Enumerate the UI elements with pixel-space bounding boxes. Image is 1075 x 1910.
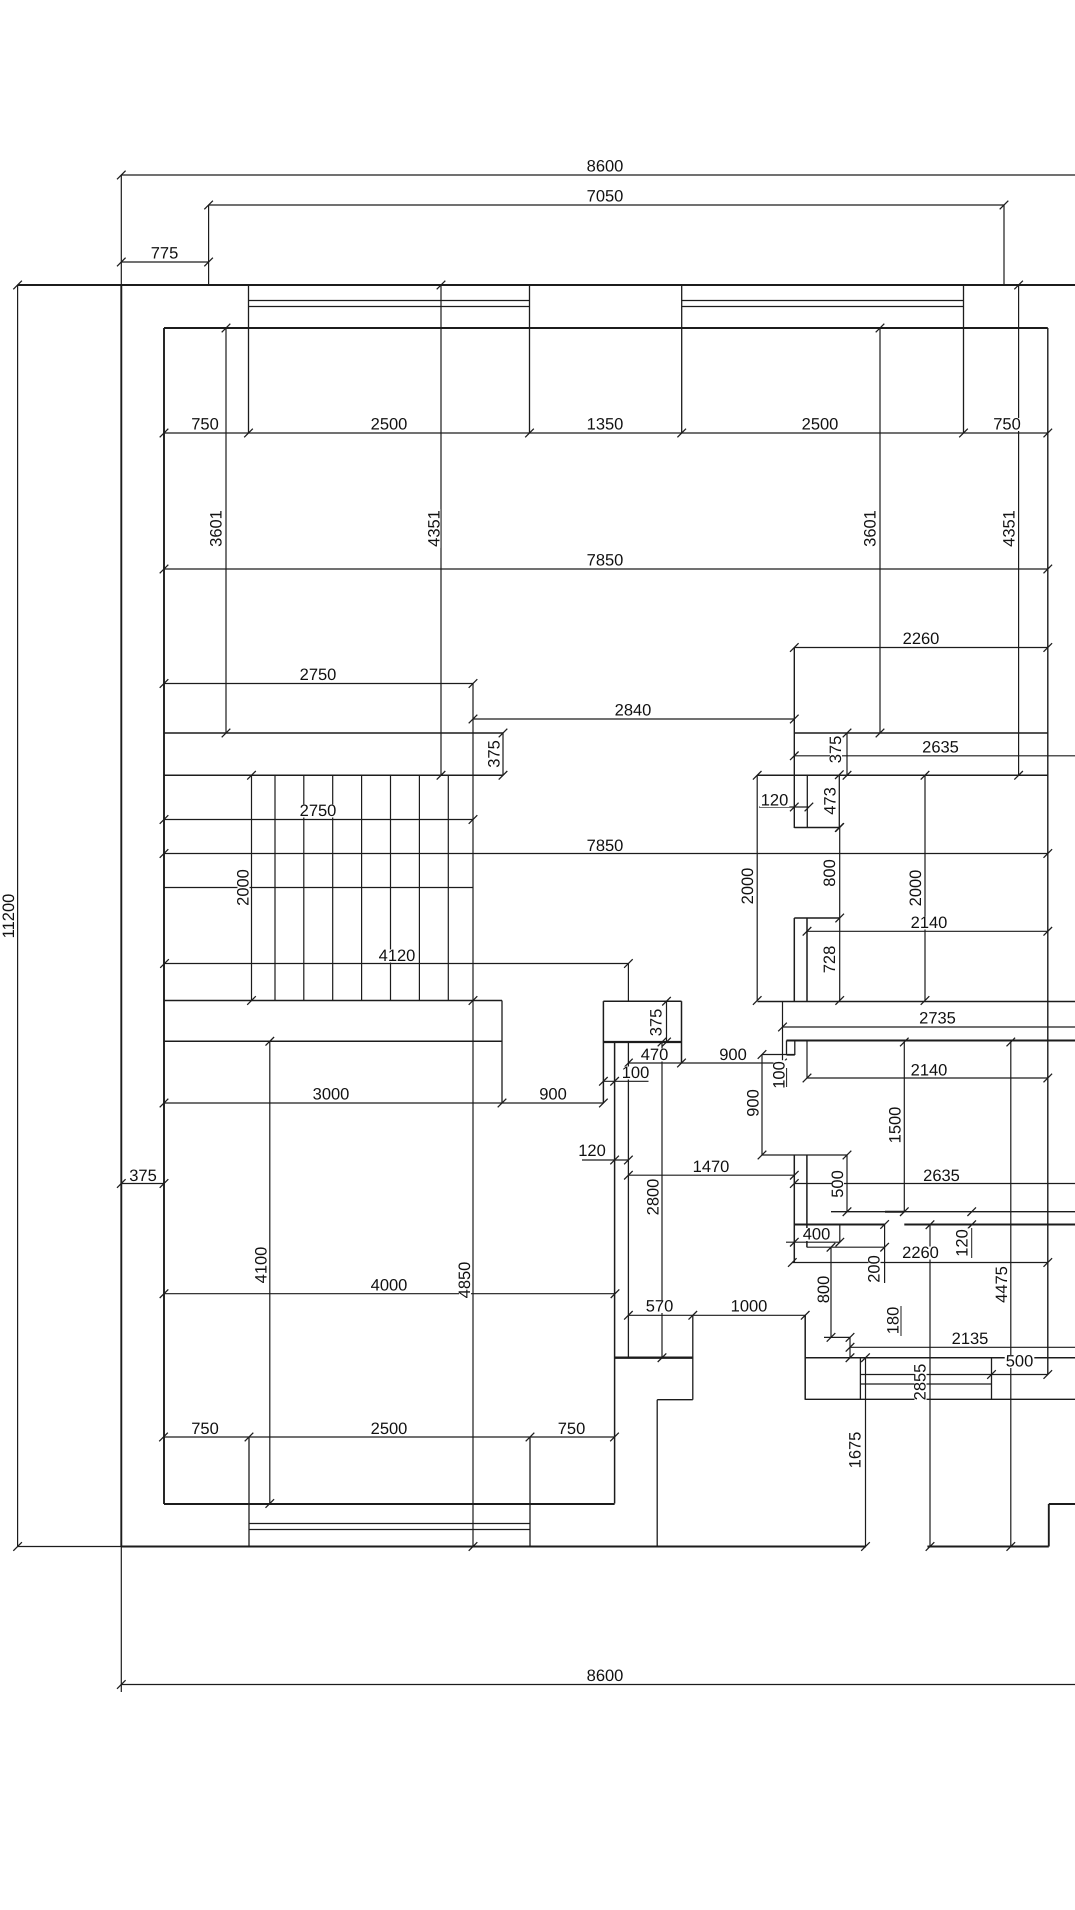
dim row 750 2500 750 bottom: [164, 1436, 615, 1438]
dim line 500 bath: [846, 1155, 848, 1212]
label 4000: [370, 1279, 409, 1292]
bottom outer wall extension left: [18, 1546, 122, 1548]
label 1500: [887, 1106, 905, 1145]
label 11200: [0, 892, 18, 940]
label 375: [128, 1170, 158, 1183]
label 750: [190, 418, 220, 431]
bath wall top dark overlap: [885, 1211, 904, 1213]
dim line 2260 lower: [792, 1262, 1048, 1264]
dim line 1470: [628, 1174, 794, 1176]
label 120: [760, 794, 790, 807]
dim line 2135: [850, 1346, 1075, 1348]
svg-text:750: 750: [993, 416, 1021, 434]
dim line 3601 right: [879, 328, 881, 733]
window bottom glass line 2: [249, 1529, 530, 1531]
terrace door jamb left: [692, 1315, 694, 1399]
svg-text:2855: 2855: [912, 1364, 930, 1401]
dim line 2735: [783, 1026, 1075, 1028]
ext 400: [839, 1225, 841, 1243]
svg-text:900: 900: [745, 1089, 763, 1117]
duct right edge / dim 473: [838, 775, 840, 828]
svg-text:2840: 2840: [615, 702, 652, 720]
label 2500: [370, 418, 409, 431]
label 100 underline: [786, 1068, 788, 1087]
bottom outer wall: [121, 1546, 866, 1548]
dim line 375 left wall: [121, 1183, 164, 1185]
dim row top 750 2500 1350 2500 750: [164, 432, 1048, 434]
svg-text:180: 180: [885, 1307, 903, 1335]
svg-text:1675: 1675: [847, 1432, 865, 1469]
label 4351: [1001, 509, 1019, 548]
dim line 7850 middle: [164, 853, 1048, 855]
label 500: [1005, 1355, 1035, 1368]
svg-text:2135: 2135: [952, 1330, 989, 1348]
svg-text:473: 473: [822, 787, 840, 815]
label 2635: [922, 1170, 961, 1183]
door cap right: [794, 1041, 796, 1056]
dim line 1675: [865, 1358, 867, 1547]
dim line 728: [839, 918, 841, 1001]
label 4120: [378, 950, 417, 963]
label 100: [621, 1067, 651, 1080]
dim line 120 closet: [759, 806, 809, 808]
svg-text:4000: 4000: [371, 1277, 408, 1295]
svg-text:7050: 7050: [587, 188, 624, 206]
ext 2735 left: [782, 1002, 784, 1064]
dim line 1500: [903, 1042, 905, 1212]
dim line 2140 lower: [807, 1077, 1048, 1079]
label 375: [827, 735, 845, 765]
outer top wall line with extensions: [18, 284, 1075, 286]
left extension above outer wall: [120, 175, 122, 285]
terrace step line: [657, 1399, 693, 1401]
label 750: [992, 418, 1022, 431]
dim line 2800: [661, 1042, 663, 1358]
dim line 800 bath: [830, 1247, 832, 1337]
svg-text:750: 750: [191, 416, 219, 434]
window top-left glass line 2: [249, 306, 530, 308]
hall line y775 right: [757, 774, 1048, 776]
bath line y1247: [807, 1246, 885, 1248]
svg-text:900: 900: [719, 1046, 747, 1064]
svg-text:2500: 2500: [371, 416, 408, 434]
label 1675: [847, 1431, 865, 1470]
stair tread 5: [390, 775, 392, 1000]
label 2260: [901, 1247, 940, 1260]
svg-text:1470: 1470: [693, 1158, 730, 1176]
door cap bottom: [787, 1054, 795, 1056]
svg-text:500: 500: [829, 1170, 847, 1198]
svg-text:2000: 2000: [235, 869, 253, 906]
stair tread 1: [274, 775, 276, 1000]
block top edge: [603, 1000, 681, 1002]
label 1470: [692, 1161, 731, 1174]
terrace wall thick: [615, 1357, 693, 1359]
svg-text:750: 750: [558, 1420, 586, 1438]
dim line 375 stair wall: [502, 733, 504, 775]
window top-right glass line 2: [682, 306, 964, 308]
stair tread 4: [361, 775, 363, 1000]
label 1000: [730, 1300, 769, 1313]
label 375: [486, 739, 504, 769]
label 728: [821, 945, 839, 975]
label 120 underline right: [971, 1228, 973, 1258]
svg-text:570: 570: [646, 1298, 674, 1316]
dim line 2140 upper: [807, 930, 1048, 932]
ext 2140: [806, 1041, 808, 1079]
dim line 2260 upper: [794, 647, 1048, 649]
svg-text:2800: 2800: [645, 1179, 663, 1216]
svg-text:3000: 3000: [313, 1086, 350, 1104]
label 2260: [902, 633, 941, 646]
terrace edge x657: [656, 1400, 658, 1547]
svg-text:2500: 2500: [371, 1420, 408, 1438]
label 800: [821, 858, 839, 888]
label 2140: [910, 917, 949, 930]
svg-text:2140: 2140: [911, 914, 948, 932]
closet wall x794 upper: [793, 648, 795, 829]
hall wall band bottom: [787, 1040, 1075, 1042]
dim line 775: [121, 261, 208, 263]
ext 7050 right: [1003, 205, 1005, 285]
svg-text:750: 750: [191, 1420, 219, 1438]
svg-text:2000: 2000: [739, 868, 757, 905]
bath wall bottom thick left: [794, 1224, 884, 1226]
dim line 2000 hall right: [924, 775, 926, 1000]
bath wall x807: [806, 1155, 808, 1247]
dim line 2855: [929, 1225, 931, 1547]
label 2800: [645, 1178, 663, 1217]
inner top wall line: [164, 327, 1048, 329]
label 7850: [586, 840, 625, 853]
dim line 100 under block: [603, 1080, 648, 1082]
dim line 11200: [17, 285, 19, 1547]
wall stub y918: [794, 917, 839, 919]
svg-text:775: 775: [151, 245, 179, 263]
label 2735: [918, 1012, 957, 1025]
stairs left edge / dim 2000: [251, 775, 253, 1000]
terrace window line 1 and dim 500: [860, 1374, 1047, 1376]
inner right wall: [1047, 328, 1049, 1375]
left extension below outer wall: [120, 1547, 122, 1693]
label 180: [885, 1306, 903, 1336]
room line y733 left: [164, 732, 503, 734]
window bottom right edge: [529, 1437, 531, 1547]
label 2140: [910, 1064, 949, 1077]
svg-text:728: 728: [821, 946, 839, 974]
dim line 8600 top: [121, 174, 1075, 176]
bath wall top: [831, 1211, 1075, 1213]
svg-text:120: 120: [578, 1142, 606, 1160]
label 3601: [862, 509, 880, 548]
window top-right right edge: [963, 285, 965, 433]
label 3601: [208, 509, 226, 548]
inner bottom wall right part: [1049, 1503, 1075, 1505]
svg-text:3601: 3601: [862, 510, 880, 547]
label 375: [648, 1008, 666, 1038]
svg-text:900: 900: [539, 1086, 567, 1104]
label 8600: [586, 160, 625, 173]
svg-text:4100: 4100: [253, 1247, 271, 1284]
label 7050: [586, 190, 625, 203]
terrace window line 2: [860, 1383, 991, 1385]
label 2840: [614, 704, 653, 717]
svg-text:800: 800: [815, 1276, 833, 1304]
stair tread 6: [418, 775, 420, 1000]
ext line y1155: [762, 1154, 847, 1156]
label 400: [802, 1228, 832, 1241]
label 2000: [739, 867, 757, 906]
label 200: [866, 1254, 884, 1284]
label 2635: [921, 741, 960, 754]
svg-text:11200: 11200: [0, 894, 18, 939]
dim line 4351 right: [1018, 285, 1020, 775]
svg-text:4351: 4351: [426, 510, 444, 547]
label 2855: [912, 1363, 930, 1402]
svg-text:2260: 2260: [903, 630, 940, 648]
inner bottom wall left part: [164, 1503, 615, 1505]
dim line 200: [884, 1225, 886, 1284]
block bottom edge thick: [603, 1041, 681, 1043]
stairs mid line: [164, 887, 474, 889]
label 750: [190, 1423, 220, 1436]
dim line 2840: [473, 718, 794, 720]
svg-text:400: 400: [803, 1226, 831, 1244]
ext 7050 left: [208, 205, 210, 285]
label 120: [577, 1145, 607, 1158]
dim line 4000: [164, 1293, 615, 1295]
label 2000: [907, 869, 925, 908]
dim line 4100: [269, 1041, 271, 1503]
door cap left: [786, 1041, 788, 1056]
wall x794 lower: [793, 918, 795, 1001]
svg-text:8600: 8600: [587, 158, 624, 176]
svg-text:7850: 7850: [587, 552, 624, 570]
svg-text:2750: 2750: [300, 666, 337, 684]
terrace window right edge: [991, 1358, 993, 1400]
svg-text:2635: 2635: [922, 739, 959, 757]
label 500: [829, 1169, 847, 1199]
label 2500: [370, 1423, 409, 1436]
window top-left glass line 1: [249, 300, 530, 302]
label 2000: [235, 868, 253, 907]
dim line 2635 lower: [794, 1183, 1075, 1185]
label 775: [150, 247, 180, 260]
duct bottom edge: [794, 827, 839, 829]
label 470: [640, 1049, 670, 1062]
wall x807 lower: [806, 918, 808, 1001]
label 900: [718, 1049, 748, 1062]
label 900: [745, 1088, 763, 1118]
label 2750: [299, 805, 338, 818]
bottom right inset wall: [1048, 1504, 1050, 1547]
terrace wall right: [805, 1357, 1075, 1359]
dim line 570 and 1000: [628, 1314, 805, 1316]
svg-text:375: 375: [486, 740, 504, 768]
stairs right edge / dim 4850: [472, 684, 474, 1547]
dim line 2750 lower: [164, 819, 473, 821]
label 2135: [951, 1333, 990, 1346]
svg-text:100: 100: [771, 1061, 789, 1089]
label 120: [954, 1228, 972, 1258]
label 2750: [299, 669, 338, 682]
stairs bottom edge: [164, 1000, 502, 1002]
svg-text:3601: 3601: [208, 510, 226, 547]
label 3000: [312, 1088, 351, 1101]
ext 4120 right: [627, 964, 629, 1002]
dim line 4475: [1010, 1042, 1012, 1547]
dim line 7050: [209, 204, 1004, 206]
dim line 120 partition: [582, 1159, 628, 1161]
svg-text:1500: 1500: [887, 1107, 905, 1144]
svg-text:800: 800: [821, 859, 839, 887]
dim line 180: [849, 1337, 851, 1357]
label 750: [557, 1423, 587, 1436]
duct left edge: [806, 775, 808, 828]
svg-text:4351: 4351: [1001, 510, 1019, 547]
hall wall band top: [758, 1001, 1075, 1003]
label 1350: [586, 418, 625, 431]
dim line 4351 left: [440, 285, 442, 775]
bath line y1337: [824, 1336, 850, 1338]
svg-text:7850: 7850: [587, 837, 624, 855]
label 4475: [993, 1265, 1011, 1304]
window bottom glass line 1: [249, 1523, 530, 1525]
dim line 800 door: [839, 828, 841, 919]
svg-text:375: 375: [648, 1009, 666, 1037]
dim line 3000 and 900 row: [164, 1102, 603, 1104]
svg-text:200: 200: [866, 1255, 884, 1283]
dim line 8600 bottom: [121, 1684, 1075, 1686]
ext door top: [762, 1054, 795, 1056]
svg-text:120: 120: [954, 1229, 972, 1257]
svg-text:1000: 1000: [731, 1298, 768, 1316]
dim line 4120: [165, 963, 629, 965]
label 7850: [586, 554, 625, 567]
outer left wall: [120, 285, 122, 1547]
block left edge: [602, 1001, 604, 1103]
svg-text:2635: 2635: [923, 1167, 960, 1185]
svg-text:4475: 4475: [993, 1266, 1011, 1303]
partition wall x614: [614, 1042, 616, 1504]
dim line 900 door vertical: [761, 1055, 763, 1156]
terrace door jamb right: [804, 1315, 806, 1400]
label 180 underline: [900, 1306, 902, 1336]
window top-right left edge: [681, 285, 683, 433]
inner left wall: [163, 328, 165, 1504]
svg-text:2500: 2500: [802, 416, 839, 434]
svg-text:2140: 2140: [911, 1062, 948, 1080]
label 100: [771, 1060, 789, 1090]
wall edge x502: [501, 1001, 503, 1104]
dim line 375 block: [666, 1001, 668, 1042]
label 2500: [801, 418, 840, 431]
stair tread 2: [303, 775, 305, 1000]
dim line 2635 upper: [794, 755, 1075, 757]
svg-text:2260: 2260: [902, 1244, 939, 1262]
svg-text:4850: 4850: [456, 1262, 474, 1299]
dim line 2000 hall left: [756, 775, 758, 1000]
dim line 3601 left: [225, 328, 227, 733]
label 4100: [253, 1246, 271, 1285]
svg-text:4120: 4120: [379, 947, 416, 965]
dim line 375 right closet: [846, 733, 848, 775]
room line y733 right: [794, 732, 1048, 734]
svg-text:2750: 2750: [300, 802, 337, 820]
label 473: [822, 786, 840, 816]
dim line 400: [786, 1241, 840, 1243]
bottom outer wall right segment: [927, 1546, 1048, 1548]
dim line 2750 upper: [164, 683, 473, 685]
label 4351: [426, 509, 444, 548]
stair tread 3: [332, 775, 334, 1000]
window bottom left edge: [248, 1437, 250, 1547]
svg-text:100: 100: [622, 1064, 650, 1082]
label 900: [538, 1088, 568, 1101]
window top-right glass line 1: [682, 300, 964, 302]
svg-text:375: 375: [827, 736, 845, 764]
svg-text:120: 120: [761, 792, 789, 810]
svg-text:1350: 1350: [587, 416, 624, 434]
terrace window left edge: [859, 1358, 861, 1400]
bath wall x794: [793, 1155, 795, 1263]
dim line 470 and 900: [628, 1062, 782, 1064]
partition dim line x628: [627, 1042, 629, 1358]
svg-text:2000: 2000: [907, 870, 925, 907]
bath wall bottom thick right: [904, 1224, 1075, 1226]
svg-text:8600: 8600: [587, 1667, 624, 1685]
room wall y1041: [164, 1040, 502, 1042]
label 800: [815, 1275, 833, 1305]
stair tread 7: [447, 775, 449, 1000]
svg-text:375: 375: [129, 1167, 157, 1185]
block right edge: [681, 1001, 683, 1063]
svg-text:470: 470: [641, 1046, 669, 1064]
dim line 7850 upper: [164, 568, 1048, 570]
window top-left left edge: [248, 285, 250, 433]
terrace window line 3: [805, 1398, 1075, 1400]
svg-text:2735: 2735: [919, 1010, 956, 1028]
dimension tick marks: [13, 171, 1052, 1689]
label 4850: [456, 1261, 474, 1300]
stairs top edge: [164, 774, 503, 776]
label 8600: [586, 1670, 625, 1683]
window top-left right edge: [529, 285, 531, 433]
label 570: [645, 1300, 675, 1313]
svg-text:500: 500: [1006, 1353, 1034, 1371]
